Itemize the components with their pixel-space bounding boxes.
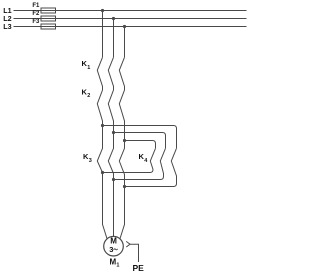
wire K4 right pole return to phase 3 [125,186,174,188]
svg-text:3: 3 [89,158,92,164]
fuse F3 [41,24,56,29]
svg-text:F3: F3 [32,19,40,25]
contactor K2 pole 2 [108,90,113,132]
junction phase3 lower [123,185,126,188]
label K4 [139,152,149,164]
wire motor lead V [113,180,115,237]
contactor K4 pole middle [160,148,165,179]
contactor K1 pole 3 [119,57,124,90]
wire row2 to K4 middle column [114,133,166,149]
svg-text:4: 4 [144,158,148,164]
label K2 [82,87,91,99]
wire motor lead W [120,187,125,239]
junction node V row2 [112,131,115,134]
contactor K3 pole 3 [119,141,124,187]
contactor K2 pole 1 [97,90,102,125]
junction node U row1 [101,124,104,127]
PE chevron at motor frame [126,241,130,247]
wire phase 1 drop [102,11,104,58]
fuse F1 [41,8,56,13]
wire motor lead U [103,173,108,239]
contactor K3 pole 1 [97,126,102,173]
label K3 [83,152,92,164]
wire K4 left pole return to phase 1 [103,172,151,174]
wire K4 middle pole return to phase 2 [114,179,161,181]
contactor K1 pole 1 [97,57,102,90]
wire L1 bus [14,10,247,12]
svg-text:F1: F1 [32,3,40,9]
junction L3 tap [123,25,126,28]
junction phase1 lower [101,171,104,174]
motor M1 circle [104,236,124,256]
contactor K1 pole 2 [108,57,113,90]
svg-text:2: 2 [87,93,90,99]
junction phase2 lower [112,178,115,181]
svg-text:1: 1 [116,263,119,269]
wire row1 to K4 right column [103,126,177,149]
svg-text:1: 1 [87,65,90,71]
junction node W row3 [123,139,126,142]
wire row3 to K4 left column [125,141,156,149]
wire PE [130,244,138,262]
label ~ inside motor [114,248,118,251]
label M1 [110,257,120,268]
contactor K4 pole right [171,148,176,186]
wire phase 3 drop [124,27,126,58]
svg-text:F2: F2 [32,11,40,17]
junction L2 tap [112,17,115,20]
label K1 [82,59,91,71]
svg-text:L3: L3 [3,22,11,31]
wire L3 bus [14,26,247,28]
contactor K4 pole left [150,148,156,172]
contactor K2 pole 3 [119,90,124,140]
wire L2 bus [14,18,247,20]
svg-text:PE: PE [133,263,145,273]
junction L1 tap [101,9,104,12]
svg-text:3: 3 [109,245,113,254]
fuse F2 [41,16,56,21]
contactor K3 pole 2 [108,133,113,180]
wire phase 2 drop [113,19,115,58]
